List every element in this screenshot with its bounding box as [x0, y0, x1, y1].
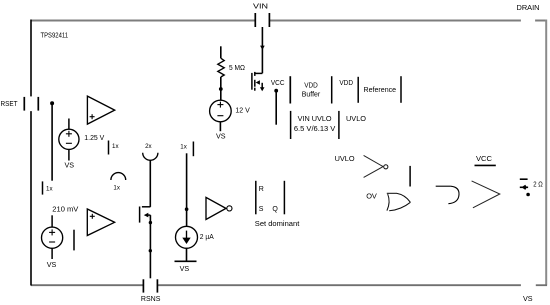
svg-text:RSET: RSET [1, 101, 19, 108]
block VDD Buffer [290, 76, 331, 103]
junction (sense line) [149, 249, 152, 252]
transistor Q1 depletion FET [252, 72, 263, 91]
wire 210mV to VS [51, 248, 53, 259]
Q1 source lead arrow [261, 83, 263, 89]
chip right border [545, 20, 547, 286]
Q1 arrow [256, 80, 260, 84]
resistor 5 MOhm [218, 58, 224, 77]
wire VIN down [261, 27, 263, 73]
op-amp U1 1.25V comparator [87, 96, 114, 124]
Q2 arrow [144, 213, 149, 218]
svg-text:Reference: Reference [364, 87, 397, 94]
wire 5M branch [220, 46, 222, 58]
svg-text:Q: Q [272, 206, 278, 213]
wire VCC down [275, 91, 277, 125]
svg-text:VIN UVLO: VIN UVLO [298, 116, 333, 123]
svg-text:VS: VS [216, 131, 226, 140]
wire mirror to 2uA source [186, 153, 188, 226]
svg-text:5 MΩ: 5 MΩ [229, 65, 245, 72]
arrow on VIN wire [260, 46, 265, 50]
current source 2 uA [176, 226, 215, 248]
gate U7 AND [436, 186, 459, 204]
svg-text:1x: 1x [112, 143, 119, 150]
svg-text:VDD: VDD [304, 82, 318, 89]
gate U3 inverter (S input) [206, 197, 232, 219]
chip bottom border [31, 284, 547, 286]
svg-text:VS: VS [180, 264, 190, 273]
wire 1.25V to VS [68, 149, 70, 160]
svg-text:Buffer: Buffer [302, 92, 321, 99]
transistor Q2 [140, 207, 151, 223]
svg-text:6.5 V/6.13 V: 6.5 V/6.13 V [294, 126, 336, 133]
junction (2uA branch) [185, 207, 189, 211]
voltage source 12 V [210, 100, 251, 122]
latch U4 SR [256, 181, 285, 215]
junction (Q2 source) [149, 221, 152, 224]
wire inverter output [409, 166, 411, 187]
current mirror 1x bar (2uA branch) [192, 142, 194, 157]
svg-text:1x: 1x [46, 186, 53, 193]
svg-text:1.25 V: 1.25 V [84, 135, 104, 142]
pin VIN [253, 2, 269, 27]
svg-text:RSNS: RSNS [141, 296, 161, 303]
svg-text:VS: VS [65, 160, 75, 169]
svg-text:UVLO: UVLO [335, 154, 355, 163]
ground VS (2uA source) [175, 260, 197, 262]
current mirror 1x bar (right of 1.25V) [108, 141, 110, 155]
wire 12V to VS [219, 122, 221, 131]
op-amp U2 210mV comparator [87, 209, 114, 236]
svg-text:DRAIN: DRAIN [517, 3, 540, 12]
svg-text:2 Ω: 2 Ω [533, 181, 543, 188]
svg-text:S: S [259, 206, 264, 213]
svg-text:OV: OV [366, 192, 377, 201]
svg-text:TPS92411: TPS92411 [41, 30, 69, 39]
svg-text:VCC: VCC [476, 154, 493, 163]
svg-text:1x: 1x [113, 184, 120, 191]
svg-text:VIN: VIN [253, 2, 268, 11]
block Reference [358, 76, 401, 103]
svg-text:1x: 1x [180, 144, 187, 151]
svg-text:VS: VS [47, 260, 57, 269]
svg-text:210 mV: 210 mV [52, 206, 78, 213]
wire comparator negative input [73, 230, 75, 251]
wire 2x mirror to Q2 [149, 160, 151, 207]
wire RSET sense [51, 103, 53, 180]
pin RSNS [141, 279, 161, 303]
svg-text:UVLO: UVLO [346, 114, 366, 123]
chip left border [30, 20, 32, 286]
gate U6 OR [387, 193, 411, 211]
node RSET junction [50, 101, 54, 105]
wire Q2 source to RSNS [149, 215, 151, 278]
block VIN UVLO [291, 111, 339, 139]
wire resistor to node [220, 77, 222, 101]
gate U5 inverter UVLO [364, 155, 388, 177]
svg-text:VCC: VCC [271, 80, 285, 87]
gate U8 driver [472, 181, 500, 208]
svg-text:Set dominant: Set dominant [255, 221, 300, 228]
junction (gate node) [526, 193, 530, 197]
svg-text:2 µA: 2 µA [200, 234, 214, 241]
svg-text:2x: 2x [145, 143, 152, 150]
wire 210mV top [51, 215, 53, 227]
svg-text:12 V: 12 V [235, 107, 250, 114]
node 5M/12V junction [219, 87, 223, 91]
svg-text:VDD: VDD [339, 80, 353, 87]
wire 2uA to ground [186, 248, 188, 261]
wire 1.25V to comparator [68, 119, 70, 130]
resistor 2 Ohm [520, 179, 543, 190]
pin RSET [1, 97, 39, 111]
current mirror 1x bar (left) [42, 181, 44, 194]
voltage source 1.25 V [59, 129, 105, 149]
chip top border [31, 20, 547, 22]
svg-text:VS: VS [523, 294, 533, 303]
svg-text:R: R [259, 186, 264, 193]
current mirror 1x arc [111, 173, 126, 180]
